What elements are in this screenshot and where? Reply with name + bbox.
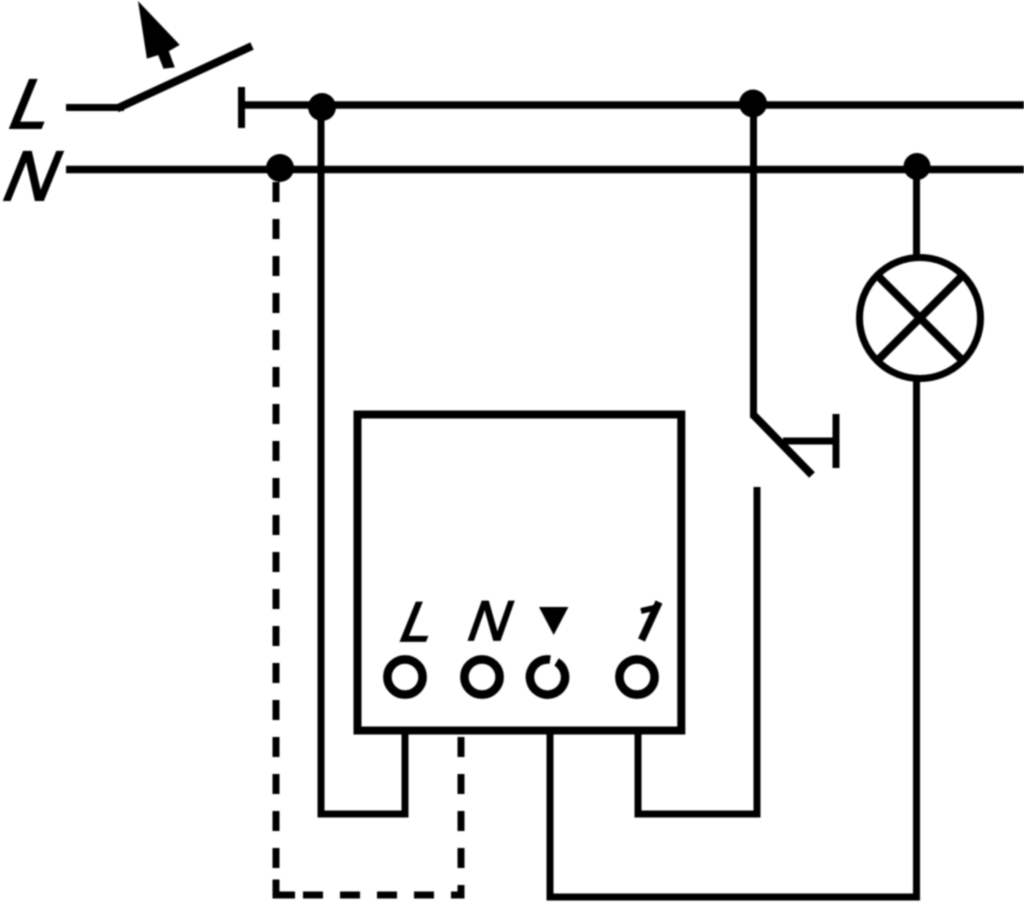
terminal circle N (464, 659, 499, 694)
label L (phase conductor) (5, 65, 61, 143)
label N (neutral conductor) (0, 137, 67, 215)
junction dot: L bus / left drop (308, 93, 336, 121)
junction dot: N bus / dashed drop (266, 154, 294, 182)
push-button contact arm (783, 438, 836, 445)
wire: terminal 1 to push-button (638, 487, 757, 814)
lamp circle (860, 258, 981, 379)
wire: lamp top to N bus (913, 166, 920, 261)
lamp cross stroke 2 (877, 275, 963, 361)
wire: dashed N link to box (276, 174, 461, 895)
junction dot: N bus / lamp drop (904, 153, 931, 180)
terminal circle 1 (619, 659, 654, 694)
terminal label 1 (641, 602, 659, 640)
wire: terminal arrow to lamp bottom (550, 376, 917, 897)
push-button lever (754, 415, 813, 475)
wire: L bus (242, 101, 1024, 109)
push-button contact bar (833, 414, 840, 468)
wire: N bus (66, 166, 1024, 174)
junction dot: L bus / push-button drop (739, 90, 767, 118)
wire: push-button drop from L bus (750, 104, 757, 418)
switch S1 lever (open) (117, 46, 252, 109)
device box (electronic insert) (358, 415, 682, 731)
terminal circle arrow (gap at top) (523, 653, 571, 701)
terminal label L (396, 591, 440, 653)
switch S1 fixed contact T-bar (238, 87, 245, 128)
lamp cross stroke 1 (877, 275, 963, 361)
terminal label arrow (539, 607, 568, 635)
dashed corner dash (bottom-left) (276, 880, 295, 896)
cursor arrow (manual actuation) (138, 1, 180, 69)
wire: L drop to terminal L (321, 105, 405, 814)
terminal circle L (387, 659, 422, 694)
terminal label N (465, 589, 516, 652)
wire: L lead-in stub (66, 104, 124, 111)
